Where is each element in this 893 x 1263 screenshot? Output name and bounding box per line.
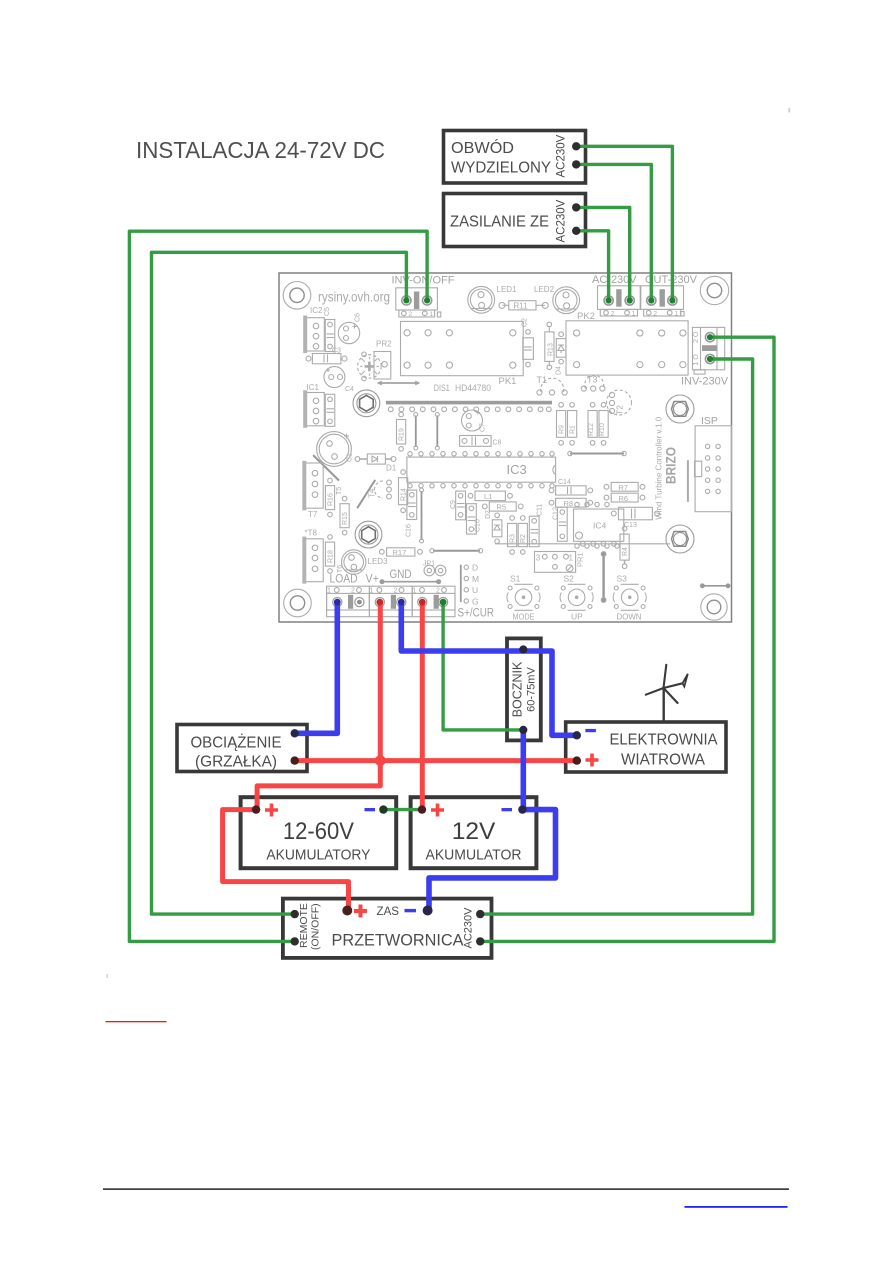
svg-text:INSTALACJA 24-72V DC: INSTALACJA 24-72V DC bbox=[136, 137, 385, 163]
connector ISP bbox=[688, 426, 732, 512]
svg-text:S1: S1 bbox=[510, 574, 521, 584]
resistor R6 bbox=[604, 493, 645, 503]
dot green INV-230V 1 bbox=[707, 356, 713, 362]
jumper wire J1 bbox=[414, 413, 418, 451]
capacitor C16 bbox=[406, 490, 417, 537]
svg-text:D4: D4 bbox=[556, 366, 563, 375]
svg-text:R4: R4 bbox=[622, 547, 629, 556]
box ELEKTROWNIA WIATROWA bbox=[566, 722, 726, 772]
svg-text:V+: V+ bbox=[366, 574, 380, 586]
svg-text:R8: R8 bbox=[564, 499, 574, 508]
svg-text:R5: R5 bbox=[497, 503, 507, 512]
wire green INV-230V pin2 to przetwornica AC230V bottom bbox=[480, 337, 774, 941]
capacitor C11 bbox=[529, 504, 543, 547]
svg-text:IC4: IC4 bbox=[593, 521, 607, 531]
resistor R17 bbox=[379, 548, 422, 557]
svg-text:C2: C2 bbox=[522, 318, 529, 327]
box 12V AKUMULATOR bbox=[411, 797, 537, 868]
svg-text:IC2: IC2 bbox=[310, 306, 323, 315]
jumper wire J2 bbox=[435, 413, 439, 451]
terminal block LOAD bbox=[327, 586, 370, 617]
svg-text:T5: T5 bbox=[336, 487, 343, 495]
svg-text:12V: 12V bbox=[452, 818, 496, 845]
dot red SCUR1 bbox=[419, 599, 426, 606]
svg-text:D1: D1 bbox=[386, 464, 397, 473]
LCD header strip DIS1 bbox=[386, 401, 552, 412]
terminal dot battery1 minus bbox=[379, 805, 387, 813]
box ZASILANIE ZE bbox=[444, 194, 586, 247]
wire red V+ drop bbox=[378, 602, 383, 761]
resistor R12 bbox=[588, 403, 597, 446]
capacitor C1 bbox=[317, 432, 354, 467]
svg-text:R11: R11 bbox=[514, 302, 529, 311]
connector INV-ON/OFF bbox=[396, 288, 441, 318]
terminal dot przetwornica AC230V 2 bbox=[476, 937, 484, 945]
svg-text:T1: T1 bbox=[537, 375, 548, 385]
svg-text:C11: C11 bbox=[537, 504, 544, 516]
capacitor C6 bbox=[338, 313, 361, 344]
wire green inner-left: przetwornica REMOTE1 to INV-ON/OFF pin2 bbox=[152, 252, 407, 914]
resistor R4 bbox=[620, 526, 629, 568]
terminal dot obwod 2 bbox=[572, 160, 580, 168]
header T8 bbox=[302, 537, 323, 584]
svg-text:INV-230V: INV-230V bbox=[681, 376, 729, 388]
svg-text:C4: C4 bbox=[345, 386, 354, 393]
svg-text:IC1: IC1 bbox=[307, 383, 320, 392]
svg-text:OBCIĄŻENIE: OBCIĄŻENIE bbox=[191, 734, 282, 752]
svg-text:2 O: 2 O bbox=[693, 331, 700, 343]
svg-text:S2: S2 bbox=[564, 574, 575, 584]
svg-text:C14: C14 bbox=[558, 479, 571, 486]
svg-text:PK1: PK1 bbox=[499, 376, 517, 387]
svg-text:R15: R15 bbox=[342, 512, 349, 525]
wire green S+/CUR pin2 to bocznik bottom bbox=[443, 602, 523, 730]
box OBWOD WYDZIELONY bbox=[444, 131, 586, 184]
svg-text:T6: T6 bbox=[337, 565, 344, 573]
svg-text:ISP: ISP bbox=[701, 415, 718, 427]
wire red junction to 12-60V plus bbox=[257, 761, 380, 810]
svg-text:R19: R19 bbox=[399, 428, 406, 441]
svg-text:S3: S3 bbox=[617, 574, 628, 584]
svg-text:C7: C7 bbox=[480, 423, 487, 432]
svg-text:WYDZIELONY: WYDZIELONY bbox=[451, 160, 551, 177]
resistor R2 bbox=[518, 516, 527, 555]
svg-text:R9: R9 bbox=[559, 425, 566, 434]
diode D2 bbox=[485, 510, 502, 544]
svg-text:C6: C6 bbox=[355, 313, 362, 322]
svg-text:1 O: 1 O bbox=[693, 354, 700, 366]
svg-text:AKUMULATORY: AKUMULATORY bbox=[266, 848, 370, 864]
terminal dot zasilanie 1 bbox=[572, 203, 580, 211]
terminal dot battery2 minus bbox=[518, 805, 526, 813]
svg-text:C3: C3 bbox=[332, 348, 341, 355]
wire blue bocznik bottom to 12V minus bbox=[520, 730, 526, 810]
terminal dot elektrownia minus bbox=[573, 731, 581, 739]
svg-text:LED3: LED3 bbox=[368, 557, 389, 566]
svg-text:R7: R7 bbox=[619, 483, 629, 492]
svg-text:D: D bbox=[472, 563, 478, 573]
wire green zasilanie2 to AC-230V pin2 bbox=[576, 231, 608, 299]
svg-text:2: 2 bbox=[394, 588, 398, 595]
svg-text:60-75mV: 60-75mV bbox=[526, 667, 538, 712]
svg-text:R6: R6 bbox=[619, 494, 629, 503]
transistor T4 bbox=[368, 480, 392, 499]
svg-text:ZAS: ZAS bbox=[377, 904, 400, 918]
bottom marks bbox=[103, 108, 790, 1208]
capacitor C2b bbox=[325, 394, 335, 426]
resistor R5 bbox=[482, 502, 523, 512]
button S3 bbox=[613, 574, 646, 611]
PCB-GROUP bbox=[279, 273, 732, 622]
svg-text:M: M bbox=[472, 574, 479, 584]
mounting hole bottom-left bbox=[284, 589, 312, 617]
resistor R16 bbox=[325, 478, 334, 517]
jumper above bottom-right hole bbox=[700, 583, 730, 588]
svg-text:C10: C10 bbox=[475, 519, 482, 532]
svg-text:DOWN: DOWN bbox=[617, 612, 642, 622]
trace right of R17 bbox=[430, 549, 483, 553]
wire blue LOAD to obciazenie bbox=[295, 602, 338, 733]
svg-text:PR1: PR1 bbox=[576, 552, 585, 567]
TERMINAL DOTS bbox=[252, 142, 713, 946]
svg-text:LED2: LED2 bbox=[534, 285, 555, 294]
transistor T3 bbox=[581, 375, 605, 392]
dot green OUT230V 1 bbox=[669, 297, 675, 303]
diode D1 bbox=[355, 454, 397, 473]
svg-text:INV-ON/OFF: INV-ON/OFF bbox=[392, 275, 455, 287]
capacitor C10 bbox=[467, 504, 482, 534]
screw hole mid-right-upper bbox=[666, 395, 694, 423]
svg-text:*T8: *T8 bbox=[305, 529, 318, 538]
svg-text:2: 2 bbox=[653, 311, 657, 318]
svg-text:C16: C16 bbox=[406, 524, 413, 537]
svg-text:LED1: LED1 bbox=[497, 285, 518, 294]
terminal dot przetwornica ZAS plus bbox=[342, 906, 352, 916]
trace diagonal B bbox=[357, 480, 375, 508]
svg-text:ZASILANIE ZE: ZASILANIE ZE bbox=[450, 214, 549, 231]
resistor R3 bbox=[508, 516, 517, 555]
svg-text:1: 1 bbox=[412, 588, 416, 595]
terminal dot obciazenie plus bbox=[291, 756, 299, 764]
svg-text:IC3: IC3 bbox=[507, 462, 527, 477]
svg-text:AC230V: AC230V bbox=[556, 134, 568, 177]
svg-text:PR2: PR2 bbox=[376, 340, 392, 349]
trimmer PR2 bbox=[358, 340, 393, 381]
trace diagonal A bbox=[313, 455, 339, 481]
trace long horizontal y544 bbox=[495, 541, 670, 546]
svg-text:BOCZNIK: BOCZNIK bbox=[511, 661, 525, 717]
svg-text:LOAD: LOAD bbox=[330, 574, 358, 586]
trace vertical near S3 bbox=[601, 552, 606, 603]
svg-text:C5: C5 bbox=[324, 307, 331, 316]
svg-text:AKUMULATOR: AKUMULATOR bbox=[426, 848, 522, 864]
connector INV-230V bbox=[693, 327, 725, 374]
screw hole upper-middle bbox=[353, 390, 380, 417]
svg-text:DIS1: DIS1 bbox=[434, 383, 450, 394]
svg-text:1: 1 bbox=[674, 311, 678, 318]
svg-text:AC230V: AC230V bbox=[556, 199, 568, 242]
capacitor C5 bbox=[324, 307, 335, 352]
capacitor C8 bbox=[460, 436, 502, 447]
capacitor C4 bbox=[324, 367, 354, 393]
wire blue 12V minus to przetwornica ZAS minus bbox=[429, 810, 556, 909]
IC IC3 bbox=[407, 457, 556, 482]
resistor R19 bbox=[397, 412, 406, 451]
resistor R1 bbox=[568, 403, 577, 446]
svg-text:T7: T7 bbox=[308, 510, 318, 519]
box OBCIAZENIE (GRZALKA) bbox=[177, 725, 307, 772]
svg-text:HD44780: HD44780 bbox=[455, 383, 491, 394]
button S1 bbox=[507, 574, 540, 611]
capacitor C14 bbox=[549, 479, 593, 495]
resistor R10 bbox=[599, 403, 608, 446]
header IC2 bbox=[303, 306, 324, 353]
black horizontal rule bbox=[103, 1188, 789, 1190]
resistor R18 bbox=[325, 535, 334, 574]
svg-text:T2: T2 bbox=[615, 405, 625, 415]
diode D4 bbox=[556, 332, 566, 375]
svg-text:S+/CUR: S+/CUR bbox=[458, 608, 495, 620]
svg-text:T3: T3 bbox=[587, 375, 598, 385]
svg-text:D2: D2 bbox=[485, 510, 492, 519]
resistor R11 bbox=[499, 301, 548, 311]
svg-text:T4: T4 bbox=[368, 488, 377, 498]
capacitor C13 bbox=[611, 507, 659, 529]
svg-text:R13: R13 bbox=[548, 343, 555, 356]
wire red 12-60V plus to przetwornica ZAS plus bbox=[223, 810, 349, 909]
svg-text:REMOTE: REMOTE bbox=[298, 903, 310, 948]
svg-text:1: 1 bbox=[370, 588, 374, 595]
wire green obwod2 to OUT-230V pin2 bbox=[576, 164, 651, 299]
terminal block S+/CUR bbox=[412, 586, 455, 617]
terminal dot zasilanie 2 bbox=[572, 227, 580, 235]
resistor R9 bbox=[557, 403, 566, 446]
svg-text:2: 2 bbox=[409, 311, 413, 318]
svg-text:C13: C13 bbox=[624, 522, 637, 529]
inductor L1 bbox=[468, 491, 512, 501]
svg-text:R12: R12 bbox=[588, 423, 595, 436]
dot green INV-ON/OFF 1 bbox=[424, 297, 430, 303]
mounting hole top-left bbox=[283, 282, 311, 310]
relay PK1 bbox=[401, 321, 524, 375]
svg-text:C1: C1 bbox=[347, 453, 354, 462]
resistor R13 bbox=[545, 322, 555, 370]
capacitor C3 bbox=[306, 348, 347, 364]
svg-text:2: 2 bbox=[436, 588, 440, 595]
mounting hole bottom-right bbox=[701, 594, 727, 620]
dot green INV-ON/OFF 2 bbox=[403, 297, 409, 303]
jumper wire J3 bbox=[420, 488, 424, 543]
svg-text:PK2: PK2 bbox=[577, 311, 595, 322]
svg-text:Wind Turbine Controller v.1.0: Wind Turbine Controller v.1.0 bbox=[655, 416, 664, 520]
svg-text:R3: R3 bbox=[510, 534, 517, 543]
svg-text:R16: R16 bbox=[328, 493, 335, 506]
svg-text:2: 2 bbox=[611, 311, 615, 318]
terminal dot elektrownia plus bbox=[573, 756, 581, 764]
arrow trace below PR2 bbox=[377, 381, 421, 386]
screw hole mid-right-lower bbox=[666, 525, 694, 553]
svg-text:GND: GND bbox=[390, 569, 412, 581]
box BOCZNIK 60-75mV bbox=[507, 638, 541, 740]
svg-text:G: G bbox=[472, 596, 479, 606]
terminal dot przetwornica ZAS minus bbox=[423, 906, 433, 916]
pads row below IC3 bbox=[408, 484, 554, 488]
wind turbine icon bbox=[646, 665, 688, 723]
resistor R14 bbox=[399, 470, 408, 513]
svg-text:C9: C9 bbox=[450, 500, 457, 509]
svg-text:L1: L1 bbox=[484, 492, 492, 501]
terminal dot battery1 plus bbox=[252, 805, 260, 813]
BOXES bbox=[177, 131, 726, 958]
svg-text:R17: R17 bbox=[393, 548, 407, 557]
svg-text:R2: R2 bbox=[520, 534, 527, 543]
mounting hole top-right bbox=[700, 276, 728, 304]
wire red main horizontal obciazenie to elektrownia plus bbox=[295, 758, 577, 763]
wire green INV-230V pin1 to przetwornica AC230V top bbox=[480, 359, 752, 914]
red short line bbox=[106, 1021, 167, 1022]
relay PK2 bbox=[566, 321, 688, 375]
button S2 bbox=[560, 574, 593, 611]
capacitor C9 bbox=[450, 491, 466, 520]
LED1 bbox=[468, 286, 495, 313]
svg-text:OBWÓD: OBWÓD bbox=[451, 138, 514, 157]
wire blue GND2 through bocznik top to elektrownia minus bbox=[401, 602, 577, 735]
dot blue LOAD1 bbox=[334, 599, 341, 606]
dot red V+1 bbox=[376, 599, 383, 606]
svg-text:12-60V: 12-60V bbox=[283, 818, 355, 845]
dot green AC230V 1 bbox=[627, 297, 633, 303]
header IC1 bbox=[303, 383, 324, 428]
svg-text:R1: R1 bbox=[570, 425, 577, 434]
junction dot red V+ bbox=[375, 755, 386, 766]
LED LED3 bbox=[342, 550, 366, 574]
wire green battery link 12-60V minus to 12V plus bbox=[383, 808, 422, 811]
svg-text:1: 1 bbox=[430, 311, 434, 318]
wire green obwod1 to OUT-230V pin1 bbox=[576, 146, 672, 299]
svg-text:2: 2 bbox=[351, 588, 355, 595]
terminal dots at PCB connectors (wire ends) bbox=[334, 297, 713, 605]
terminal dot bocznik top bbox=[519, 645, 527, 653]
IC IC4 bbox=[574, 502, 624, 548]
header T7 bbox=[302, 461, 323, 519]
svg-text:(ON/OFF): (ON/OFF) bbox=[310, 903, 322, 950]
svg-text:BRIZO: BRIZO bbox=[664, 447, 679, 484]
svg-text:rysiny.ovh.org: rysiny.ovh.org bbox=[318, 290, 390, 305]
resistor R8 bbox=[549, 498, 593, 508]
header D/M/U/G bbox=[461, 563, 479, 607]
transistor T1 bbox=[537, 375, 568, 395]
terminal dot obciazenie minus bbox=[291, 729, 299, 737]
resistor R7 bbox=[604, 482, 645, 492]
svg-text:(GRZAŁKA): (GRZAŁKA) bbox=[195, 754, 277, 771]
terminal dot obwod 1 bbox=[572, 142, 580, 150]
trace right of IC3 bbox=[568, 451, 626, 455]
tiny gray tick top right bbox=[789, 108, 791, 113]
box PRZETWORNICA bbox=[283, 899, 492, 958]
svg-text:U: U bbox=[472, 585, 478, 595]
terminal dot przetwornica remote1 bbox=[291, 910, 299, 918]
pads row above IC3 bbox=[408, 452, 554, 456]
transistor T2 bbox=[607, 390, 632, 415]
svg-text:C12: C12 bbox=[553, 507, 560, 520]
dot green OUT230V 2 bbox=[648, 297, 654, 303]
svg-text:R10: R10 bbox=[599, 423, 606, 436]
svg-text:R18: R18 bbox=[328, 550, 335, 563]
svg-text:PRZETWORNICA: PRZETWORNICA bbox=[332, 932, 464, 950]
wire red S+/CUR pin1 to 12V plus bbox=[420, 602, 425, 810]
dot green SCUR2 bbox=[440, 599, 447, 606]
box 12-60V AKUMULATORY bbox=[241, 797, 397, 868]
terminal dot battery2 plus bbox=[418, 805, 426, 813]
PCB board outline bbox=[279, 273, 732, 622]
terminal dot bocznik bottom bbox=[519, 726, 527, 734]
capacitor C2 between relays bbox=[522, 318, 534, 367]
jumper JP1 bbox=[423, 561, 446, 576]
header PR1 bbox=[535, 552, 585, 573]
dot blue GND2 bbox=[398, 599, 405, 606]
svg-text:ELEKTROWNIA: ELEKTROWNIA bbox=[610, 732, 719, 749]
capacitor C7 bbox=[462, 410, 487, 432]
dot green AC230V 2 bbox=[606, 297, 612, 303]
resistor R15 bbox=[340, 496, 349, 535]
svg-text:WIATROWA: WIATROWA bbox=[621, 752, 706, 769]
terminal dot przetwornica remote2 bbox=[291, 937, 299, 945]
connector AC-230V bbox=[598, 286, 641, 318]
screw hole mid-left bbox=[355, 521, 382, 548]
svg-text:3: 3 bbox=[536, 554, 541, 563]
wire green zasilanie1 to AC-230V pin1 bbox=[576, 207, 630, 299]
connector OUT-230V bbox=[641, 286, 684, 318]
svg-text:MODE: MODE bbox=[513, 612, 535, 622]
blue underline link bbox=[685, 1206, 788, 1208]
capacitor C12 bbox=[553, 507, 568, 541]
svg-text:1: 1 bbox=[569, 554, 574, 563]
LED2 bbox=[553, 287, 580, 314]
svg-text:1: 1 bbox=[632, 311, 636, 318]
svg-text:C8: C8 bbox=[493, 440, 502, 447]
wire green outer-left: przetwornica REMOTE2 to INV-ON/OFF pin1 bbox=[129, 231, 427, 941]
GND pointer trace bbox=[380, 579, 442, 584]
svg-text:UP: UP bbox=[571, 612, 583, 622]
tiny gray tick bottom left bbox=[107, 974, 108, 978]
terminal dot przetwornica AC230V 1 bbox=[476, 910, 484, 918]
terminal block V+/GND bbox=[369, 586, 412, 617]
dot green INV-230V 2 bbox=[707, 334, 713, 340]
svg-text:AC230V: AC230V bbox=[463, 907, 475, 949]
svg-text:1: 1 bbox=[327, 588, 331, 595]
